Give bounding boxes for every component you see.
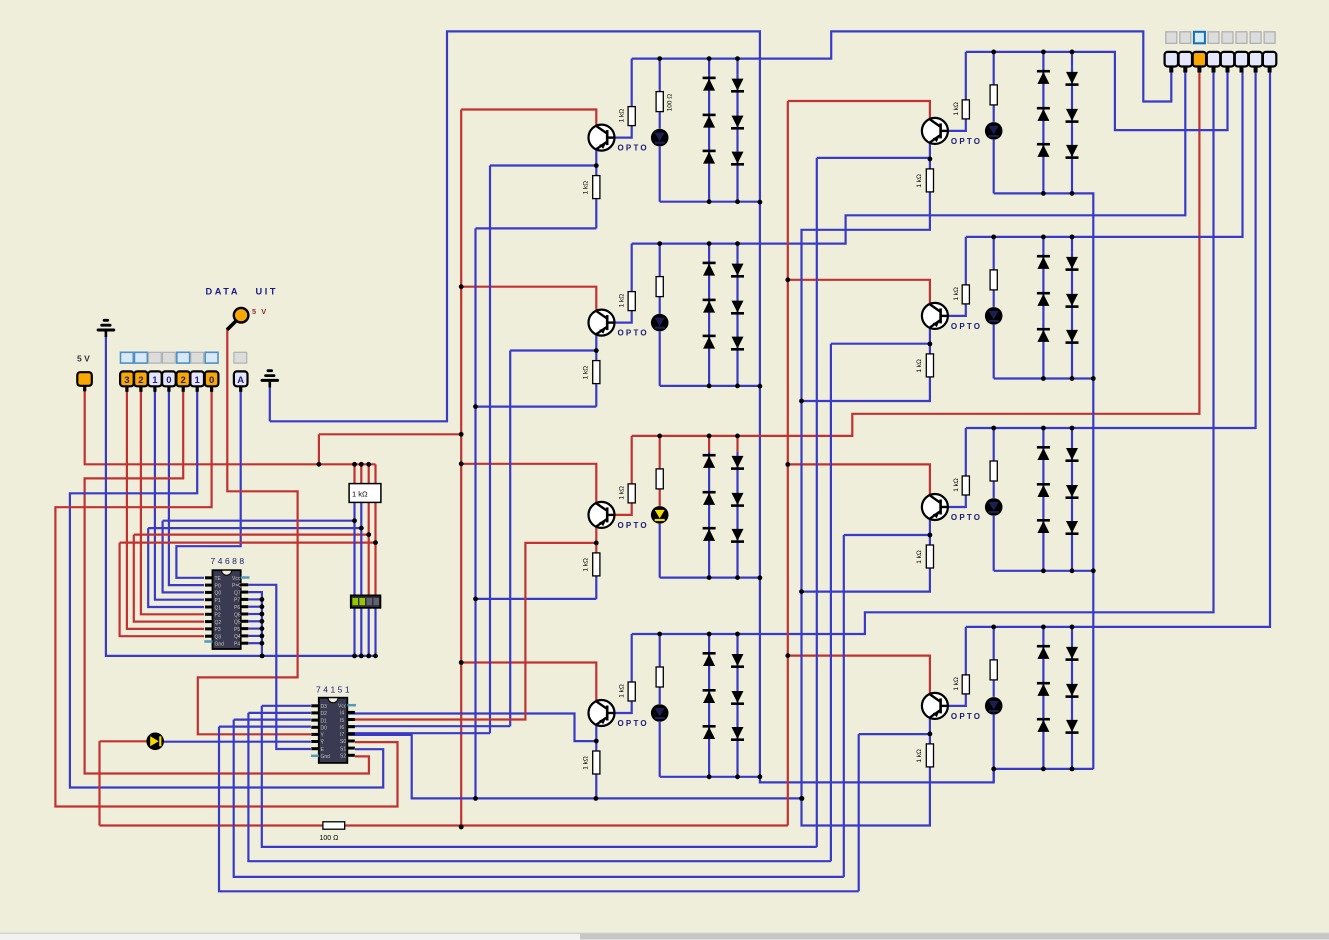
- svg-text:P6: P6: [234, 605, 240, 611]
- svg-text:Q6: Q6: [234, 612, 241, 618]
- svg-text:P1: P1: [215, 598, 221, 604]
- svg-text:1 kΩ: 1 kΩ: [619, 294, 626, 308]
- svg-text:Q5: Q5: [234, 620, 241, 626]
- svg-text:1 kΩ: 1 kΩ: [953, 287, 960, 301]
- svg-text:1 kΩ: 1 kΩ: [582, 558, 589, 572]
- svg-text:S2: S2: [340, 754, 346, 760]
- svg-text:1 kΩ: 1 kΩ: [916, 550, 923, 564]
- svg-text:OPTO: OPTO: [618, 719, 649, 728]
- svg-text:5 V: 5 V: [77, 354, 90, 364]
- svg-text:Q2: Q2: [215, 620, 222, 626]
- svg-text:1 kΩ: 1 kΩ: [953, 677, 960, 691]
- svg-text:1 kΩ: 1 kΩ: [619, 109, 626, 123]
- svg-text:1 kΩ: 1 kΩ: [916, 749, 923, 763]
- svg-text:0: 0: [209, 375, 214, 386]
- svg-text:Gnd: Gnd: [215, 642, 225, 648]
- svg-text:5 V: 5 V: [252, 307, 268, 316]
- svg-text:0: 0: [166, 375, 171, 386]
- svg-text:DATA: DATA: [206, 287, 241, 297]
- svg-text:Q0: Q0: [215, 591, 222, 597]
- svg-text:1 kΩ: 1 kΩ: [953, 478, 960, 492]
- svg-text:P0: P0: [215, 583, 221, 589]
- svg-text:OPTO: OPTO: [618, 521, 649, 530]
- svg-text:3: 3: [124, 375, 129, 386]
- svg-text:OPTO: OPTO: [618, 329, 649, 338]
- svg-text:1 kΩ: 1 kΩ: [352, 490, 368, 499]
- svg-text:OPTO: OPTO: [951, 513, 982, 522]
- svg-text:Vcc: Vcc: [232, 576, 241, 582]
- svg-text:P3: P3: [215, 627, 221, 633]
- svg-text:Vcc: Vcc: [338, 704, 347, 710]
- svg-text:D2: D2: [321, 711, 328, 717]
- svg-text:2: 2: [138, 375, 143, 386]
- svg-text:100 Ω: 100 Ω: [667, 94, 674, 112]
- svg-text:1 kΩ: 1 kΩ: [582, 181, 589, 195]
- svg-text:TE: TE: [215, 576, 222, 582]
- svg-text:74688: 74688: [211, 556, 247, 566]
- svg-text:1: 1: [152, 375, 158, 386]
- svg-text:P2: P2: [215, 613, 221, 619]
- svg-text:P7: P7: [234, 598, 240, 604]
- svg-text:Q4: Q4: [234, 634, 241, 640]
- svg-text:S0: S0: [340, 739, 346, 745]
- svg-text:1 kΩ: 1 kΩ: [582, 756, 589, 770]
- svg-text:P5: P5: [234, 627, 240, 633]
- svg-text:Gnd: Gnd: [321, 754, 331, 760]
- svg-text:P4: P4: [234, 642, 240, 648]
- svg-text:D0: D0: [321, 726, 328, 732]
- svg-text:1 kΩ: 1 kΩ: [916, 359, 923, 373]
- svg-text:I6: I6: [340, 725, 344, 731]
- svg-text:OPTO: OPTO: [951, 712, 982, 721]
- svg-text:OPTO: OPTO: [951, 137, 982, 146]
- svg-text:2: 2: [181, 375, 186, 386]
- svg-text:OPTO: OPTO: [951, 322, 982, 331]
- svg-text:I7: I7: [340, 732, 344, 738]
- svg-text:Q1: Q1: [215, 605, 222, 611]
- svg-text:I4: I4: [340, 711, 344, 717]
- svg-text:OPTO: OPTO: [618, 144, 649, 153]
- svg-text:1: 1: [195, 375, 201, 386]
- svg-text:1 kΩ: 1 kΩ: [619, 486, 626, 500]
- svg-text:I5: I5: [340, 718, 344, 724]
- svg-text:100 Ω: 100 Ω: [320, 835, 339, 842]
- svg-text:Q7: Q7: [234, 590, 241, 596]
- svg-text:1 kΩ: 1 kΩ: [582, 366, 589, 380]
- svg-text:D3: D3: [321, 704, 328, 710]
- svg-text:S1: S1: [340, 746, 346, 752]
- svg-text:Q3: Q3: [215, 635, 222, 641]
- svg-text:UIT: UIT: [256, 287, 279, 297]
- svg-text:1 kΩ: 1 kΩ: [916, 174, 923, 188]
- svg-text:1 kΩ: 1 kΩ: [953, 102, 960, 116]
- svg-text:D1: D1: [321, 718, 328, 724]
- svg-text:A: A: [237, 375, 244, 386]
- svg-text:74151: 74151: [316, 685, 352, 695]
- svg-text:1 kΩ: 1 kΩ: [619, 684, 626, 698]
